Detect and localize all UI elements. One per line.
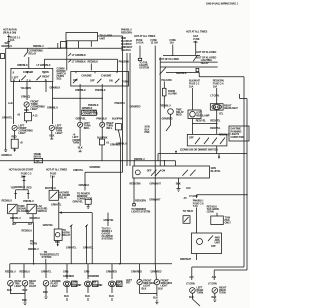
svg-text:LIGHT: LIGHT	[51, 285, 59, 288]
svg-text:GRN/YEL: GRN/YEL	[83, 247, 94, 250]
svg-text:1ET: 1ET	[28, 223, 33, 226]
svg-text:YEL: YEL	[219, 112, 224, 115]
svg-text:GRN/RED: GRN/RED	[63, 275, 74, 278]
svg-text:GRN/RED: GRN/RED	[106, 270, 117, 273]
svg-text:GRN/BLU: GRN/BLU	[1, 154, 12, 157]
svg-text:HOT AT ALL TIMES: HOT AT ALL TIMES	[186, 30, 208, 33]
svg-text:LT GRN/BLK: LT GRN/BLK	[72, 54, 86, 57]
svg-text:HORN: HORN	[30, 243, 37, 246]
svg-text:4ET: 4ET	[12, 223, 17, 226]
svg-text:ON: ON	[162, 169, 166, 172]
svg-text:RIGHT: RIGHT	[42, 75, 50, 78]
svg-text:LIGHT: LIGHT	[15, 285, 23, 288]
svg-text:GRN/BLK: GRN/BLK	[79, 184, 90, 187]
svg-text:SYSTEM: SYSTEM	[139, 66, 149, 69]
svg-text:TURN: TURN	[122, 80, 129, 83]
svg-text:GRN/YEL: GRN/YEL	[73, 169, 84, 172]
svg-text:RED/GRN: RED/GRN	[130, 182, 141, 185]
svg-text:ON: ON	[109, 80, 113, 83]
svg-text:IND L: IND L	[106, 127, 113, 130]
svg-text:7.5A: 7.5A	[193, 205, 198, 208]
svg-text:HOT OF KLH RED: HOT OF KLH RED	[159, 58, 179, 61]
svg-text:GRN/RED: GRN/RED	[110, 144, 121, 147]
svg-text:OFF: OFF	[147, 169, 152, 172]
svg-text:TO TRLR: TO TRLR	[183, 210, 193, 213]
svg-text:LT GRN: LT GRN	[208, 283, 217, 286]
svg-text:GRN/RED: GRN/RED	[130, 105, 141, 108]
svg-text:1993-94 (A/L) WIRING DIAG 1: 1993-94 (A/L) WIRING DIAG 1	[206, 3, 239, 6]
svg-text:TRN IND: TRN IND	[93, 284, 103, 287]
svg-text:PNK: PNK	[145, 131, 150, 134]
svg-text:GRN/YEL: GRN/YEL	[51, 203, 62, 206]
svg-text:RED/BLU: RED/BLU	[160, 105, 171, 108]
svg-text:WHT/BLU: WHT/BLU	[45, 187, 56, 190]
svg-text:FLASHER: FLASHER	[18, 210, 29, 213]
svg-text:TURN: TURN	[42, 71, 49, 74]
svg-text:CHASME: CHASME	[81, 74, 92, 77]
svg-text:MOD: MOD	[176, 114, 182, 117]
svg-text:GRN/YEL: GRN/YEL	[66, 247, 77, 250]
svg-text:15A: 15A	[170, 42, 175, 45]
svg-text:TURN: TURN	[73, 142, 80, 145]
svg-text:LIGHTS SYSTEM: LIGHTS SYSTEM	[131, 210, 150, 213]
svg-text:COMPUTER: COMPUTER	[231, 136, 245, 139]
svg-text:ONLY: ONLY	[225, 222, 232, 225]
svg-text:LIGHT: LIGHT	[19, 132, 27, 135]
svg-text:RED/GRN: RED/GRN	[135, 200, 146, 203]
svg-text:SYSTEM: SYSTEM	[42, 256, 52, 259]
svg-text:BLK: BLK	[189, 296, 194, 299]
svg-text:GRN/RED: GRN/RED	[88, 275, 99, 278]
svg-text:BLK: BLK	[212, 296, 217, 299]
svg-text:RED/BLU: RED/BLU	[33, 45, 44, 48]
svg-text:KLF: KLF	[186, 187, 191, 190]
svg-text:LIGHT: LIGHT	[56, 132, 64, 135]
svg-text:(COMBI SW OR DIMMER SWITCH): (COMBI SW OR DIMMER SWITCH)	[180, 149, 218, 152]
svg-text:GRN/RED: GRN/RED	[131, 270, 142, 273]
svg-text:RED: RED	[12, 136, 17, 139]
svg-text:A15: A15	[189, 276, 194, 279]
svg-text:RED/YEL: RED/YEL	[196, 119, 207, 122]
svg-text:UNIT: UNIT	[215, 241, 221, 244]
svg-text:CORNER: CORNER	[23, 71, 34, 74]
svg-text:RED/BLK: RED/BLK	[88, 60, 99, 63]
svg-text:CHASME: CHASME	[101, 74, 112, 77]
svg-text:10A: 10A	[10, 39, 15, 42]
svg-text:RED/BLU: RED/BLU	[20, 271, 31, 274]
svg-text:BLK: BLK	[7, 289, 12, 292]
svg-text:YEL/GRN: YEL/GRN	[161, 79, 172, 82]
svg-text:BLK: BLK	[153, 297, 158, 300]
svg-text:RED/GRN: RED/GRN	[121, 31, 132, 34]
svg-text:GRN/YEL: GRN/YEL	[103, 219, 114, 222]
svg-text:RED/BLU: RED/BLU	[28, 248, 39, 251]
svg-text:GRN/RED: GRN/RED	[162, 117, 173, 120]
svg-text:RED/BLU: RED/BLU	[2, 200, 13, 203]
svg-text:HOT AT ALL TIMES: HOT AT ALL TIMES	[46, 169, 68, 172]
svg-text:-10-: -10-	[36, 160, 40, 163]
svg-text:CONNECTOR: CONNECTOR	[83, 113, 98, 116]
svg-text:GRN/WHT: GRN/WHT	[150, 182, 162, 185]
svg-text:BLK: BLK	[142, 288, 147, 291]
svg-text:TURN: TURN	[219, 291, 226, 294]
svg-text:LT GRN/BLK: LT GRN/BLK	[37, 64, 51, 67]
svg-text:LT GRN/BLK: LT GRN/BLK	[72, 60, 86, 63]
svg-text:(RUN & ON): (RUN & ON)	[3, 31, 16, 34]
svg-text:PNK/BLU: PNK/BLU	[115, 102, 126, 105]
svg-text:OFF: OFF	[189, 137, 194, 140]
svg-text:TURN: TURN	[197, 291, 204, 294]
svg-text:A16: A16	[212, 276, 217, 279]
svg-text:IND: IND	[117, 284, 121, 287]
svg-text:UNIT: UNIT	[100, 37, 106, 40]
svg-text:BLK/PNK: BLK/PNK	[112, 118, 123, 121]
svg-text:RELAY: RELAY	[29, 53, 37, 56]
svg-text:RELAY: RELAY	[63, 234, 71, 237]
svg-text:RED: RED	[27, 186, 32, 189]
svg-text:HOT OF KLH RED: HOT OF KLH RED	[196, 51, 216, 54]
svg-text:GRN/WHT: GRN/WHT	[149, 199, 161, 202]
svg-text:14 10A: 14 10A	[136, 42, 144, 45]
svg-text:RED/YEL: RED/YEL	[210, 119, 221, 122]
svg-text:PNK/BLK: PNK/BLK	[95, 89, 106, 92]
svg-text:A-21: A-21	[33, 115, 39, 118]
svg-text:RED/BLU: RED/BLU	[2, 45, 13, 48]
svg-text:+B: +B	[17, 114, 20, 117]
svg-text:ORN/BLK: ORN/BLK	[17, 64, 28, 67]
svg-text:HEADLIGHT: HEADLIGHT	[224, 107, 238, 110]
svg-text:HOT AT ALL TIMES: HOT AT ALL TIMES	[134, 35, 156, 38]
svg-text:GRN/YEL: GRN/YEL	[41, 271, 52, 274]
svg-text:IND L: IND L	[84, 127, 91, 130]
svg-text:HEADLAMP: HEADLAMP	[196, 114, 210, 117]
svg-text:CONN: CONN	[207, 211, 214, 214]
svg-text:RED/WHT: RED/WHT	[180, 258, 192, 261]
svg-text:RED/BLU: RED/BLU	[5, 271, 16, 274]
svg-text:TRN IND: TRN IND	[72, 284, 82, 287]
svg-text:RED/BLU: RED/BLU	[22, 229, 33, 232]
svg-text:BLK: BLK	[109, 295, 114, 298]
svg-text:BLK: BLK	[85, 295, 90, 298]
svg-text:SYSTEMS: SYSTEMS	[102, 237, 114, 240]
svg-text:LT GRN: LT GRN	[210, 95, 219, 98]
svg-text:BLU/YEL: BLU/YEL	[211, 170, 222, 173]
svg-text:RED/BLU: RED/BLU	[10, 217, 21, 220]
svg-text:YEL/GRN: YEL/GRN	[21, 87, 32, 90]
svg-text:GRN/RED: GRN/RED	[151, 270, 162, 273]
svg-text:GRN (C): GRN (C)	[21, 95, 30, 98]
svg-text:RED/BLU: RED/BLU	[134, 158, 145, 161]
svg-text:LIGHT: LIGHT	[29, 285, 37, 288]
svg-text:OFF: OFF	[90, 80, 95, 83]
svg-text:RED/BLK: RED/BLK	[176, 72, 187, 75]
svg-text:13 10A: 13 10A	[151, 42, 159, 45]
svg-text:GRN: GRN	[63, 270, 69, 273]
svg-text:BLK: BLK	[158, 288, 163, 291]
svg-text:GRN/YEL: GRN/YEL	[73, 200, 84, 203]
svg-text:OFF: OFF	[211, 245, 216, 248]
svg-text:GRN/RED: GRN/RED	[89, 166, 100, 169]
svg-text:RED/YEL: RED/YEL	[210, 127, 221, 130]
svg-text:RED/BLU: RED/BLU	[30, 217, 41, 220]
svg-text:SWITCH: SWITCH	[37, 210, 47, 213]
svg-text:GRN/YEL: GRN/YEL	[76, 117, 87, 120]
svg-text:GRN/YEL: GRN/YEL	[2, 117, 13, 120]
svg-text:ORN/BLK: ORN/BLK	[75, 89, 86, 92]
svg-text:BLK: BLK	[78, 147, 83, 150]
svg-text:YEL: YEL	[11, 186, 16, 189]
svg-text:GRN/YEL: GRN/YEL	[43, 224, 54, 227]
svg-text:PNK/BLU: PNK/BLU	[23, 200, 34, 203]
svg-text:YEL/BLU: YEL/BLU	[121, 49, 131, 52]
svg-text:GRN: GRN	[84, 270, 90, 273]
svg-text:BLK: BLK	[22, 299, 27, 302]
svg-text:LT GRN: LT GRN	[186, 283, 195, 286]
svg-text:FRT: FRT	[126, 282, 131, 285]
svg-text:PNK/BLK: PNK/BLK	[96, 117, 107, 120]
svg-text:LIGHT: LIGHT	[31, 108, 39, 111]
svg-text:ORN/BLU: ORN/BLU	[47, 107, 58, 110]
svg-text:15A: 15A	[189, 86, 194, 89]
svg-text:+D: +D	[20, 142, 23, 145]
svg-text:PNK/BLK: PNK/BLK	[119, 60, 130, 63]
svg-text:BLK: BLK	[64, 295, 69, 298]
svg-text:SIG): SIG)	[57, 78, 62, 81]
svg-text:HOT IN ON OR START: HOT IN ON OR START	[9, 169, 34, 172]
svg-text:RELAY: RELAY	[59, 197, 67, 200]
svg-text:GRN/BLK: GRN/BLK	[50, 86, 61, 89]
svg-text:A+E: A+E	[8, 102, 13, 105]
svg-text:BLK: BLK	[43, 291, 48, 294]
svg-text:ALARM: ALARM	[168, 93, 177, 96]
svg-text:RED/BLU: RED/BLU	[15, 186, 26, 189]
